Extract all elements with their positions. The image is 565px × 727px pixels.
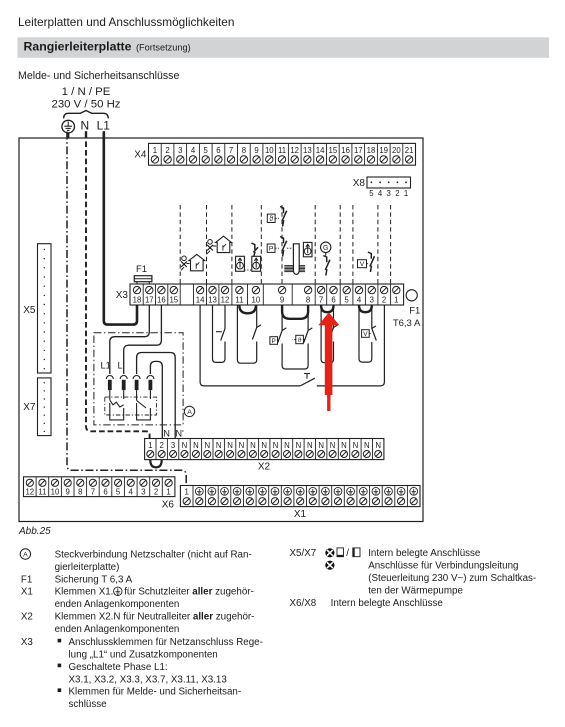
svg-text:N: N <box>353 441 359 450</box>
label X4 <box>134 150 147 161</box>
pump box at heater <box>303 242 312 256</box>
svg-text:1: 1 <box>153 146 157 155</box>
svg-text:2: 2 <box>382 296 386 305</box>
section header bar <box>18 37 550 58</box>
bridge X3.4-X3.3 <box>359 305 372 312</box>
svg-text:Anschlussklemmen für Netzansch: Anschlussklemmen für Netzanschluss Rege- <box>69 637 263 648</box>
svg-text:8: 8 <box>306 296 310 305</box>
P box (pressure) <box>267 244 279 253</box>
svg-text:(Fortsetzung): (Fortsetzung) <box>136 43 191 53</box>
fuse F1 symbol <box>134 276 152 284</box>
svg-text:Melde- und Sicherheitsanschlüs: Melde- und Sicherheitsanschlüsse <box>18 70 179 82</box>
connector X7 <box>38 378 52 436</box>
label X8 <box>353 178 366 189</box>
svg-text:G: G <box>323 245 328 252</box>
svg-text:1: 1 <box>166 488 170 497</box>
label 1/N/PE <box>62 86 111 98</box>
loop X3.13-X3.12 with contact <box>213 305 226 362</box>
svg-text:N: N <box>182 441 188 450</box>
svg-text:P: P <box>269 246 274 253</box>
label circle A <box>184 406 194 416</box>
svg-text:Leiterplatten und Anschlussmög: Leiterplatten und Anschlussmöglichkeiten <box>18 15 234 29</box>
svg-text:N: N <box>261 441 267 450</box>
svg-text:2: 2 <box>154 488 158 497</box>
wire plug 3 to X2.3 (N&#39;) <box>137 353 176 439</box>
svg-text:6: 6 <box>216 146 220 155</box>
label L1 <box>97 118 111 132</box>
svg-text:5: 5 <box>116 488 121 497</box>
wire L1 (solid) from supply to X3.18 <box>104 133 137 325</box>
svg-text:(Steuerleitung 230 V~) zum Sch: (Steuerleitung 230 V~) zum Schaltkas- <box>368 573 536 584</box>
label N <box>80 118 89 132</box>
svg-text:N: N <box>307 441 313 450</box>
symbol crossed circle row 2 <box>325 561 334 570</box>
svg-text:11: 11 <box>38 488 46 497</box>
svg-text:20: 20 <box>392 146 401 155</box>
svg-text:gierleiterplatte): gierleiterplatte) <box>55 562 120 573</box>
svg-text:5: 5 <box>204 146 209 155</box>
pole link bottoms <box>110 403 151 420</box>
svg-text:ten der Wärmepumpe: ten der Wärmepumpe <box>368 585 463 596</box>
wire PE (dash-dot) from supply to X1 <box>67 132 186 486</box>
PE symbol at supply <box>62 120 75 133</box>
switch pole 1 <box>110 390 124 407</box>
svg-text:N: N <box>204 441 210 450</box>
legend item X1 <box>21 587 254 610</box>
svg-text:15: 15 <box>169 296 178 305</box>
svg-text:N: N <box>284 441 290 450</box>
svg-text:X4: X4 <box>134 150 147 161</box>
immersion heater element <box>284 244 305 275</box>
svg-text:N: N <box>80 118 89 132</box>
svg-text:N: N <box>364 441 370 450</box>
svg-text:F1: F1 <box>136 264 147 275</box>
svg-text:3: 3 <box>178 146 182 155</box>
legend item F1 <box>21 574 133 585</box>
terminal block X3 <box>130 284 404 305</box>
svg-text:16: 16 <box>157 296 166 305</box>
label X5 <box>23 305 36 316</box>
relay box (dashed) <box>105 397 157 415</box>
dotted link between pumps <box>245 269 252 271</box>
switch pole 2 <box>137 390 151 408</box>
svg-text:X1: X1 <box>294 509 307 520</box>
svg-text:9: 9 <box>280 296 284 305</box>
pump box 2 <box>252 256 261 271</box>
pump box 1 <box>236 256 245 271</box>
caption Melde- und Sicherheitsanschluesse <box>18 70 179 82</box>
label X1 <box>294 509 307 520</box>
svg-text:4: 4 <box>378 189 383 198</box>
svg-text:V: V <box>360 261 365 268</box>
svg-text:Klemmen für Melde- und Sicherh: Klemmen für Melde- und Sicherheitsan- <box>69 687 242 698</box>
contact below G <box>323 256 330 276</box>
svg-text:Rangierleiterplatte: Rangierleiterplatte <box>24 40 132 54</box>
label F1 at fuse right <box>409 306 420 317</box>
svg-text:7: 7 <box>319 296 323 305</box>
bridge X3.7-X3.6 <box>321 305 333 312</box>
svg-text:X7: X7 <box>23 402 36 413</box>
svg-text:9: 9 <box>66 488 70 497</box>
svg-text:ϑ: ϑ <box>298 337 302 344</box>
label X3 <box>116 290 129 301</box>
svg-text:14: 14 <box>316 146 325 155</box>
svg-text:2: 2 <box>165 146 169 155</box>
svg-text:Klemmen X2.N für Neutralleiter: Klemmen X2.N für Neutralleiter aller zug… <box>55 612 255 623</box>
label F1 (fuse) <box>136 264 147 275</box>
svg-text:lung „L1“ und Zusatzkomponente: lung „L1“ und Zusatzkomponenten <box>69 650 218 661</box>
svg-text:für Schutzleiter aller zugehör: für Schutzleiter aller zugehör- <box>124 587 254 598</box>
svg-text:F1: F1 <box>21 574 32 585</box>
bridge X2.1-X2.2 <box>150 460 161 467</box>
svg-text:ϑ: ϑ <box>269 216 273 223</box>
svg-text:X1: X1 <box>21 587 33 598</box>
svg-text:14: 14 <box>196 296 205 305</box>
svg-text:A: A <box>187 409 192 416</box>
labels L1 Lprime <box>101 361 125 371</box>
label X7 <box>23 402 36 413</box>
svg-text:P: P <box>272 338 276 345</box>
brace over supply wires <box>64 111 109 119</box>
svg-text:N: N <box>239 441 245 450</box>
svg-text:N: N <box>273 441 279 450</box>
circuit board frame <box>19 138 423 522</box>
svg-text:N: N <box>330 441 336 450</box>
labels N Nprime <box>163 429 184 439</box>
svg-text:X5/X7: X5/X7 <box>290 548 317 559</box>
svg-text:T6,3 A: T6,3 A <box>393 318 421 329</box>
svg-text:F1: F1 <box>409 306 420 317</box>
svg-text:11: 11 <box>235 296 243 305</box>
svg-text:1: 1 <box>185 487 189 496</box>
red marker arrow pointing at X3 bridge 7-6 <box>318 312 339 411</box>
svg-text:1 / N / PE: 1 / N / PE <box>62 86 111 98</box>
legend item X6/X8 <box>290 598 444 609</box>
svg-text:Steckverbindung Netzschalter (: Steckverbindung Netzschalter (nicht auf … <box>55 550 252 561</box>
svg-text:5: 5 <box>345 296 350 305</box>
svg-text:V: V <box>363 331 368 338</box>
theta box (temperature) top <box>267 214 279 223</box>
svg-text:6: 6 <box>331 296 335 305</box>
loop X3.9-X3.8 with P and theta contacts <box>278 305 313 369</box>
svg-text:3: 3 <box>141 488 145 497</box>
svg-text:N: N <box>250 441 256 450</box>
terminal block X4 <box>149 143 416 165</box>
wire plug 4 to X2.2 (N) <box>150 361 162 438</box>
contact for P <box>280 237 293 257</box>
svg-text:enden Anlagenkomponenten: enden Anlagenkomponenten <box>55 599 180 610</box>
svg-text:7: 7 <box>91 488 95 497</box>
room thermostat contact 1 <box>181 256 187 270</box>
svg-text:8: 8 <box>242 146 246 155</box>
svg-text:enden Anlagenkomponenten: enden Anlagenkomponenten <box>55 624 180 635</box>
svg-text:4: 4 <box>129 488 134 497</box>
contact above pump 2 <box>251 243 258 256</box>
svg-text:Klemmen X1.: Klemmen X1. <box>55 587 114 598</box>
V box below X3 <box>362 330 372 338</box>
svg-text:N': N' <box>175 429 184 439</box>
svg-text:N: N <box>341 441 347 450</box>
svg-text:N: N <box>216 441 222 450</box>
label T6,3A fuse rating <box>393 318 421 329</box>
svg-text:N: N <box>375 441 381 450</box>
svg-text:4: 4 <box>357 296 362 305</box>
svg-text:N: N <box>318 441 324 450</box>
mounting hole <box>406 290 417 301</box>
legend item A <box>20 549 30 559</box>
bridge X3.9-X3.8 <box>282 305 308 318</box>
svg-text:19: 19 <box>379 146 388 155</box>
connector X5 <box>38 244 52 373</box>
svg-text:13: 13 <box>303 146 312 155</box>
V box (flow switch) <box>358 260 370 268</box>
svg-text:Intern belegte Anschlüsse: Intern belegte Anschlüsse <box>331 598 444 609</box>
P box below X3 <box>270 337 281 345</box>
svg-text:1: 1 <box>404 189 408 198</box>
svg-text:1: 1 <box>148 441 152 450</box>
svg-text:X5: X5 <box>23 305 36 316</box>
dashed customer-connection channel lines <box>180 205 390 284</box>
svg-text:L1: L1 <box>101 361 111 371</box>
svg-text:Intern belegte Anschlüsse: Intern belegte Anschlüsse <box>368 548 481 559</box>
label 230V/50Hz <box>51 99 120 111</box>
terminal block X1 <box>180 486 420 507</box>
svg-text:6: 6 <box>103 488 107 497</box>
svg-text:17: 17 <box>145 296 154 305</box>
svg-text:X2: X2 <box>21 612 33 623</box>
terminal block X6 <box>24 477 175 497</box>
connector X8 <box>367 177 411 198</box>
svg-text:N: N <box>193 441 199 450</box>
svg-text:X6/X8: X6/X8 <box>290 598 317 609</box>
svg-text:8: 8 <box>78 488 82 497</box>
bottom rail with tariff switch to X3.2 <box>200 305 384 386</box>
svg-text:1: 1 <box>394 296 398 305</box>
svg-text:X2: X2 <box>258 461 271 472</box>
svg-text:2: 2 <box>160 441 164 450</box>
svg-text:Abb.25: Abb.25 <box>18 526 51 537</box>
svg-text:schlüsse: schlüsse <box>69 699 108 710</box>
svg-text:15: 15 <box>329 146 338 155</box>
svg-text:A: A <box>23 552 28 559</box>
svg-text:230 V / 50 Hz: 230 V / 50 Hz <box>51 99 120 111</box>
svg-text:L': L' <box>118 361 125 371</box>
svg-text:Geschaltete Phase L1:: Geschaltete Phase L1: <box>69 662 168 673</box>
plug contacts of mains switch <box>106 376 154 391</box>
svg-text:3: 3 <box>370 296 374 305</box>
svg-text:7: 7 <box>229 146 233 155</box>
svg-text:X8: X8 <box>353 178 366 189</box>
wire X3.16 to plug 2 <box>124 305 162 374</box>
svg-text:5: 5 <box>369 189 374 198</box>
svg-text:Sicherung T 6,3 A: Sicherung T 6,3 A <box>55 574 133 585</box>
svg-text:17: 17 <box>354 146 363 155</box>
svg-text:18: 18 <box>133 296 142 305</box>
legend item X2 <box>21 612 255 635</box>
legend item X5/X7 <box>290 548 317 559</box>
house symbol 2 <box>213 236 232 252</box>
svg-text:3: 3 <box>387 189 391 198</box>
bridge X3.11-X3.10 <box>239 305 256 313</box>
svg-text:3: 3 <box>171 441 175 450</box>
svg-text:11: 11 <box>278 146 286 155</box>
svg-text:X3: X3 <box>21 637 34 648</box>
house symbol 1 <box>187 254 205 270</box>
room thermostat contact 2 <box>207 240 213 255</box>
svg-text:13: 13 <box>208 296 217 305</box>
svg-text:X3: X3 <box>116 290 129 301</box>
svg-text:4: 4 <box>191 146 196 155</box>
contact for theta top <box>280 207 287 227</box>
loop X3.4-X3.3 with V contact <box>359 305 376 362</box>
svg-text:18: 18 <box>367 146 376 155</box>
symbol crossed circle + squares <box>325 548 360 559</box>
svg-text:10: 10 <box>252 296 261 305</box>
svg-text:Anschlüsse für Verbindungsleit: Anschlüsse für Verbindungsleitung <box>368 561 518 572</box>
svg-text:12: 12 <box>221 296 230 305</box>
label X2 <box>258 461 271 472</box>
mains switch area box (dash-dot) <box>94 333 183 425</box>
label X6 <box>162 500 175 511</box>
svg-text:12: 12 <box>25 488 34 497</box>
svg-text:10: 10 <box>265 146 274 155</box>
terminal block X2 <box>145 439 384 460</box>
generator G circle <box>321 242 331 255</box>
contact right of V box <box>368 252 375 272</box>
svg-text:2: 2 <box>395 189 399 198</box>
svg-text:9: 9 <box>254 146 258 155</box>
svg-text:X3.1, X3.2, X3.3, X3.7, X3.11,: X3.1, X3.2, X3.3, X3.7, X3.11, X3.13 <box>69 674 228 685</box>
loop X3.7-X3.6 with contact <box>321 305 338 363</box>
loop X3.11-X3.10 drop with contact <box>237 305 261 363</box>
legend item X3 <box>21 637 263 710</box>
wire N (dashed) from supply to X2.1 <box>86 133 150 439</box>
svg-text:12: 12 <box>290 146 299 155</box>
svg-text:N: N <box>227 441 233 450</box>
svg-text:X6: X6 <box>162 500 175 511</box>
page title <box>18 15 234 29</box>
svg-text:N: N <box>296 441 302 450</box>
svg-text:N: N <box>163 429 170 439</box>
svg-text:/: / <box>346 548 349 559</box>
svg-text:21: 21 <box>405 146 414 155</box>
svg-text:10: 10 <box>51 488 60 497</box>
figure caption Abb.25 <box>18 526 51 537</box>
svg-text:16: 16 <box>341 146 350 155</box>
svg-text:L1: L1 <box>97 118 111 132</box>
theta box below X3 <box>293 335 307 344</box>
supply wire stubs <box>68 131 104 138</box>
wire X3.17 to plug 1 <box>110 305 150 374</box>
